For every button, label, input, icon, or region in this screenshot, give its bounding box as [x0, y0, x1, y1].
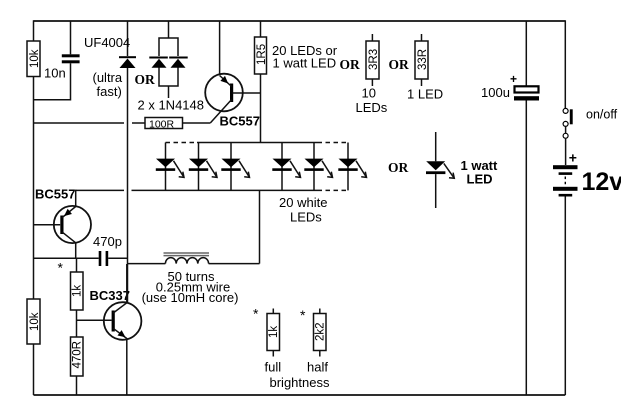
- wire left rail: [33, 20, 35, 41]
- wire Q1 base to 1R5 rail: [233, 92, 261, 94]
- wire 2k2 bottom stub: [319, 351, 321, 357]
- svg-text:OR: OR: [340, 57, 361, 72]
- svg-text:470p: 470p: [93, 234, 122, 249]
- svg-text:2 x 1N4148: 2 x 1N4148: [138, 98, 205, 113]
- svg-text:1 LED: 1 LED: [407, 87, 443, 102]
- wire 1k top stub: [76, 258, 78, 272]
- resistor R9 1k: [267, 314, 280, 351]
- wire diode rail down (crosses two wires without joining): [127, 68, 129, 303]
- wire 1N4148 bottom stub: [168, 86, 170, 98]
- LED panel bottom rail (partly dashed): [132, 189, 318, 191]
- wire 1k(full) bottom stub: [272, 351, 274, 357]
- capacitor C2 100u electrolytic: [515, 86, 539, 92]
- transistor Q3 BC337: [104, 302, 142, 340]
- capacitor C3 470p: [99, 251, 102, 266]
- svg-text:470R: 470R: [72, 341, 84, 369]
- resistor R5 33R: [415, 41, 428, 79]
- svg-text:100u: 100u: [481, 85, 510, 100]
- switch S1 on/off: [563, 108, 568, 113]
- svg-text:UF4004: UF4004: [84, 35, 130, 50]
- svg-text:10n: 10n: [44, 66, 66, 81]
- wire 100u rail: [525, 21, 527, 86]
- svg-text:OR: OR: [388, 160, 409, 175]
- LED D9: [338, 143, 366, 191]
- wire 1R5 down to LED panel top rail: [260, 74, 262, 143]
- svg-text:*: *: [253, 306, 259, 322]
- wire 33R bottom stub: [421, 79, 423, 86]
- resistor R3 1R5: [255, 37, 267, 74]
- svg-text:+: +: [569, 150, 577, 166]
- diode D2 1N4148: [149, 57, 168, 59]
- inductor L1: [128, 253, 260, 264]
- wire battery to bottom bus: [564, 197, 566, 396]
- svg-text:LEDs: LEDs: [356, 100, 388, 115]
- resistor R4 3R3: [366, 41, 379, 79]
- diode pair box 2 x 1N4148: [159, 38, 178, 56]
- svg-text:+: +: [510, 72, 517, 86]
- svg-text:1 watt LED: 1 watt LED: [273, 56, 337, 71]
- svg-text:BC337: BC337: [90, 288, 130, 303]
- svg-text:10: 10: [362, 86, 376, 101]
- svg-text:1k: 1k: [268, 326, 280, 338]
- svg-text:12v: 12v: [582, 168, 621, 196]
- LED D7: [272, 143, 300, 191]
- wire Q2 collector down to 470p line: [75, 243, 77, 259]
- wire 470p to diode rail: [108, 257, 128, 259]
- wire Q1 emitter to top bus: [219, 21, 221, 75]
- wire Q2 base from left rail: [34, 224, 61, 226]
- wire top supply bus: [34, 20, 566, 22]
- svg-text:LEDs: LEDs: [290, 210, 322, 225]
- LED D4: [156, 143, 184, 191]
- wire Q3 base from bias divider: [77, 319, 112, 321]
- svg-text:(ultra: (ultra: [93, 70, 123, 85]
- wire Q3 emitter down to bottom bus: [126, 338, 128, 395]
- wire 1N4148 top stub: [168, 21, 170, 38]
- wire 2k2 top stub: [319, 309, 321, 314]
- wire 3R3 bottom stub: [371, 79, 373, 86]
- svg-text:100R: 100R: [149, 118, 175, 130]
- resistor R6 1k: [71, 272, 84, 310]
- wire 100R right lead to Q1 collector: [183, 122, 211, 124]
- svg-text:BC557: BC557: [35, 187, 75, 202]
- svg-text:BC557: BC557: [220, 114, 260, 129]
- svg-text:2k2: 2k2: [315, 322, 327, 341]
- wire 10n bottom to left rail: [34, 63, 71, 100]
- resistor R8 10k (lower left): [27, 299, 40, 344]
- svg-text:3R3: 3R3: [368, 49, 380, 70]
- wire 1k(full) top stub: [272, 309, 274, 314]
- wire Q3 collector up to inductor node: [126, 264, 128, 303]
- capacitor C1 10n: [62, 54, 80, 57]
- wire 10n branch from top bus: [70, 21, 72, 54]
- resistor R2 100R: [145, 118, 183, 129]
- wire switch to battery: [565, 139, 567, 165]
- svg-text:*: *: [300, 307, 306, 323]
- wire UF4004 rail (top bus down to diode): [127, 21, 129, 56]
- svg-text:brightness: brightness: [270, 375, 330, 390]
- transistor Q1 BC557: [205, 74, 243, 112]
- wire base line (left rail to diode rail, stops short): [34, 122, 125, 124]
- svg-text:(use 10mH core): (use 10mH core): [142, 290, 239, 305]
- svg-text:33R: 33R: [417, 49, 429, 70]
- wire 33R top stub: [421, 34, 423, 41]
- svg-text:LED: LED: [467, 172, 493, 187]
- resistor R7 470R: [71, 337, 84, 376]
- LED D5: [189, 143, 217, 191]
- wire panel bottom feed down to inductor: [259, 190, 261, 263]
- resistor R10 2k2: [314, 314, 327, 351]
- diode D3 1N4148: [169, 57, 188, 59]
- svg-text:full: full: [265, 360, 282, 375]
- svg-text:20 white: 20 white: [279, 195, 327, 210]
- svg-text:OR: OR: [389, 57, 410, 72]
- LED panel top rail (partly dashed): [166, 142, 198, 144]
- wire 470R to bottom bus: [76, 376, 78, 395]
- wire 1R5 top stub: [260, 21, 262, 37]
- svg-text:10k: 10k: [29, 49, 41, 68]
- wire 1k to 470R: [76, 310, 78, 337]
- svg-text:fast): fast): [97, 84, 122, 99]
- svg-text:on/off: on/off: [586, 108, 618, 122]
- LED D10 1 watt: [426, 132, 454, 208]
- wire bottom bus: [34, 394, 566, 396]
- diode D1 UF4004: [119, 56, 136, 58]
- LED D6: [221, 143, 249, 191]
- svg-text:1R5: 1R5: [256, 44, 268, 65]
- wire 100R left lead: [132, 122, 145, 124]
- svg-text:1k: 1k: [72, 285, 84, 297]
- wire 3R3 top stub: [371, 34, 373, 41]
- wire 470p line (left rail to cap): [34, 257, 99, 259]
- wire battery branch from top bus: [564, 20, 566, 108]
- LED D8: [304, 143, 332, 191]
- transistor Q2 BC557: [54, 206, 91, 243]
- svg-text:OR: OR: [135, 72, 156, 87]
- svg-text:*: *: [58, 260, 64, 276]
- wire 100u rail down to bottom bus: [525, 101, 527, 396]
- svg-text:half: half: [307, 360, 328, 375]
- svg-text:10k: 10k: [29, 312, 41, 331]
- wire Q2 emitter up to panel-bottom line: [75, 190, 77, 207]
- resistor R1 10k (top left): [27, 41, 40, 77]
- wire Q2 emitter link to panel bottom rail (stops short of diode rail): [76, 189, 124, 191]
